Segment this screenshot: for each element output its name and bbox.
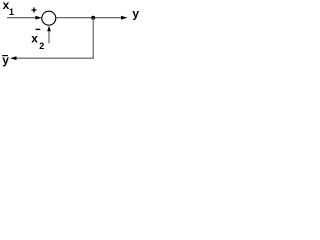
feedback wire vertical xyxy=(92,18,94,59)
wire x1 input xyxy=(7,17,36,19)
summing junction circle xyxy=(42,11,56,25)
feedback wire horizontal xyxy=(16,57,94,59)
arrowhead at y xyxy=(121,16,128,20)
svg-text:x: x xyxy=(31,32,38,46)
overbar of y-bar xyxy=(2,55,8,57)
minus sign xyxy=(36,28,41,30)
svg-text:2: 2 xyxy=(39,41,44,51)
svg-text:1: 1 xyxy=(9,7,14,17)
svg-text:y: y xyxy=(132,7,139,21)
output wire to y xyxy=(56,17,121,19)
wire x2 input vertical xyxy=(48,31,50,44)
arrowhead x2 into summer bottom xyxy=(47,26,51,32)
junction node dot xyxy=(91,16,95,20)
plus sign xyxy=(32,8,37,13)
arrowhead x1 into summer xyxy=(35,16,42,20)
arrowhead at y-bar xyxy=(10,56,17,60)
